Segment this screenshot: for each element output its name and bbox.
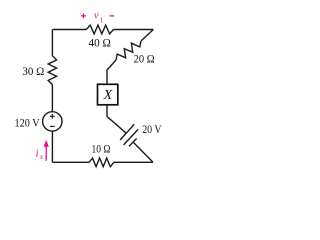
battery 20V plate long 2 xyxy=(124,129,139,145)
svg-text:20 Ω: 20 Ω xyxy=(134,53,155,65)
wire left vertical lower xyxy=(51,131,53,162)
wire bottom left of 10ohm xyxy=(52,161,89,163)
resistor R 20 ohm (diagonal) xyxy=(116,41,141,60)
wire left vertical upper xyxy=(51,30,53,56)
svg-text:i: i xyxy=(36,149,39,160)
box X (unknown element) xyxy=(98,84,118,105)
wire bottom right of 10ohm xyxy=(114,161,153,163)
resistor R 40 ohm xyxy=(86,25,113,34)
resistor R 30 ohm xyxy=(48,56,56,85)
source minus sign xyxy=(50,125,55,127)
wire top horizontal left of 40ohm xyxy=(52,29,86,31)
svg-text:1: 1 xyxy=(100,16,104,25)
wire diagonal to box xyxy=(107,60,116,84)
svg-text:40 Ω: 40 Ω xyxy=(89,37,111,49)
svg-text:v: v xyxy=(94,10,99,21)
svg-text:10 Ω: 10 Ω xyxy=(92,143,111,155)
svg-text:30 Ω: 30 Ω xyxy=(22,66,44,78)
resistor R 10 ohm xyxy=(89,158,114,167)
battery 20V plate short xyxy=(129,139,137,147)
svg-text:20 V: 20 V xyxy=(142,124,162,136)
wire top horizontal right of 40ohm xyxy=(114,29,154,31)
battery 20V plate long 1 xyxy=(120,124,134,140)
svg-text:x: x xyxy=(39,152,44,161)
label + v1 - (magenta) xyxy=(81,13,114,18)
svg-text:X: X xyxy=(103,88,113,103)
current arrow ix (magenta) xyxy=(45,145,47,161)
svg-text:120 V: 120 V xyxy=(15,118,41,130)
wire diagonal into battery xyxy=(107,117,126,134)
wire diagonal from top right corner xyxy=(141,30,153,42)
source plus sign xyxy=(50,114,55,119)
voltage source V1 120V circle xyxy=(43,112,62,131)
wire below box xyxy=(106,105,108,117)
wire left vertical mid xyxy=(51,85,53,112)
wire diagonal from battery to bottom right corner xyxy=(133,142,153,162)
